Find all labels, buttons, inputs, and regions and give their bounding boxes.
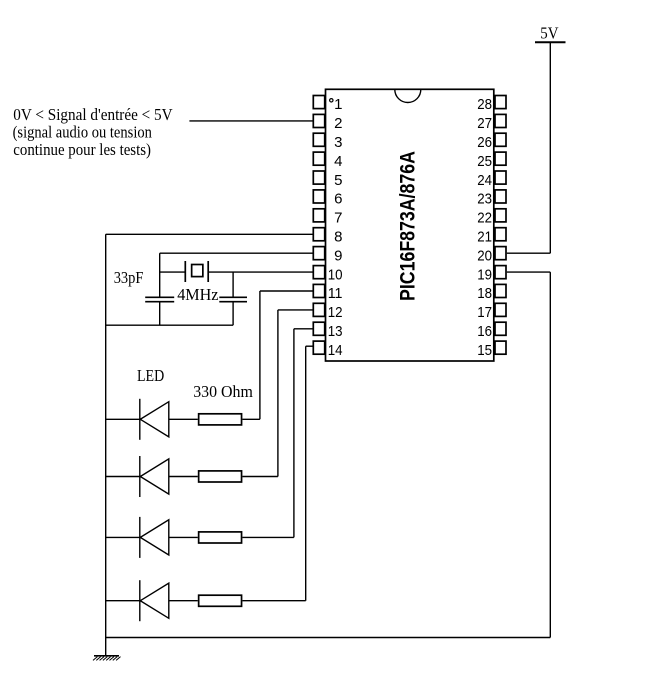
IC U1 pin 9 pad — [313, 247, 324, 260]
wire: OSC1 node to crystal left plate — [160, 271, 186, 273]
svg-text:20: 20 — [477, 247, 492, 264]
wire: bottom ground wire — [106, 637, 551, 639]
svg-text:27: 27 — [477, 115, 492, 132]
LED D4 triangle — [140, 583, 169, 618]
LED D2 triangle — [140, 459, 169, 494]
svg-text:3: 3 — [334, 134, 342, 151]
svg-text:28: 28 — [477, 96, 492, 113]
LED D4 cathode bar — [139, 580, 141, 621]
wire: pin 20 (Vdd) to 5V rail — [507, 252, 551, 254]
ground symbol hatching — [93, 657, 121, 661]
wire: riser up to pin 14 level — [305, 346, 307, 601]
svg-text:PIC16F873A/876A: PIC16F873A/876A — [397, 151, 420, 301]
IC U1 pin 11 pad — [313, 284, 324, 297]
crystal X1 left plate — [184, 261, 186, 282]
resistor R2 330 Ohm body — [199, 471, 242, 482]
IC U1 pin 22 pad — [495, 209, 506, 222]
IC U1 pin 20 pad — [495, 247, 506, 260]
IC U1 pin 13 pad — [313, 322, 324, 335]
LED D3 cathode bar — [139, 517, 141, 558]
svg-text:(signal audio ou tension: (signal audio ou tension — [13, 123, 152, 142]
svg-text:26: 26 — [477, 134, 492, 151]
IC U1 pin 2 pad — [313, 114, 324, 127]
LED D3 triangle — [140, 520, 169, 555]
wire: riser up to pin 13 level — [293, 329, 295, 538]
svg-text:continue pour les tests): continue pour les tests) — [13, 140, 151, 159]
IC U1 pin 14 pad — [313, 341, 324, 354]
wire: crystal caps ground return — [106, 324, 233, 326]
svg-text:9: 9 — [334, 247, 342, 264]
svg-text:14: 14 — [328, 342, 343, 359]
resistor R4 330 Ohm body — [199, 595, 242, 606]
wire: pin 19 (Vss) right — [507, 271, 551, 273]
svg-text:5: 5 — [334, 172, 342, 189]
LED D1 triangle — [140, 402, 169, 437]
IC U1 pin 12 pad — [313, 303, 324, 316]
IC U1 pin 25 pad — [495, 152, 506, 165]
IC U1 pin 24 pad — [495, 171, 506, 184]
crystal X1 body — [192, 265, 203, 277]
svg-text:8: 8 — [334, 229, 342, 246]
crystal X1 right plate — [207, 261, 209, 282]
svg-text:11: 11 — [328, 285, 343, 302]
IC U1 pin 8 pad — [313, 228, 324, 241]
IC U1 PIC16F873A/876A body — [326, 89, 494, 361]
wire: LED D2 anode to resistor R2 — [169, 476, 198, 478]
IC U1 pin 23 pad — [495, 190, 506, 203]
wire: riser to pin 11 — [260, 290, 313, 292]
5V supply rail bar — [535, 41, 566, 43]
resistor R3 330 Ohm body — [199, 532, 242, 543]
IC U1 pin-1 index dot — [330, 99, 333, 102]
wire: LED D1 anode to resistor R1 — [169, 418, 198, 420]
svg-text:13: 13 — [328, 323, 343, 340]
wire: signal input to pin 2 — [189, 120, 312, 122]
wire: ground bus to LED D4 cathode — [106, 600, 140, 602]
IC U1 pin 28 pad — [495, 96, 506, 109]
wire: resistor R1 to riser — [242, 418, 260, 420]
IC U1 pin 1 pad — [313, 96, 324, 109]
capacitor C2 33pF bottom plate — [219, 301, 247, 303]
svg-text:330 Ohm: 330 Ohm — [193, 382, 253, 401]
svg-text:2: 2 — [334, 115, 342, 132]
IC U1 pin 19 pad — [495, 266, 506, 279]
IC U1 pin 10 pad — [313, 266, 324, 279]
IC U1 pin 5 pad — [313, 171, 324, 184]
ground symbol bar — [94, 655, 119, 657]
wire: pin 9 OSC1 left — [160, 252, 313, 254]
IC U1 pin 16 pad — [495, 322, 506, 335]
wire: OSC1 node down to C1 — [159, 253, 161, 297]
wire: resistor R2 to riser — [242, 476, 278, 478]
wire: riser up to pin 11 level — [259, 291, 261, 419]
IC U1 pin 17 pad — [495, 303, 506, 316]
svg-text:0V < Signal d'entrée < 5V: 0V < Signal d'entrée < 5V — [13, 105, 172, 124]
svg-text:33pF: 33pF — [114, 268, 144, 287]
svg-text:1: 1 — [334, 96, 342, 113]
wire: ground bus to LED D2 cathode — [106, 476, 140, 478]
capacitor C1 33pF bottom plate — [145, 301, 174, 303]
IC U1 orientation notch — [395, 90, 421, 103]
wire: crystal right plate to pin 10 OSC2 — [208, 271, 312, 273]
wire: 5V rail down to pin 20 level — [549, 43, 551, 253]
wire: resistor R4 to riser — [242, 600, 305, 602]
IC U1 pin 27 pad — [495, 114, 506, 127]
svg-text:19: 19 — [477, 266, 492, 283]
svg-text:16: 16 — [477, 323, 492, 340]
wire: right vertical down to ground wire — [549, 272, 551, 637]
svg-text:7: 7 — [334, 210, 342, 227]
IC U1 pin 26 pad — [495, 133, 506, 146]
wire: resistor R3 to riser — [242, 536, 294, 538]
svg-text:17: 17 — [477, 304, 492, 321]
wire: pin 8 (Vss) to ground bus — [106, 233, 313, 235]
IC U1 pin 6 pad — [313, 190, 324, 203]
svg-text:18: 18 — [477, 285, 492, 302]
IC U1 pin 18 pad — [495, 284, 506, 297]
wire: C1 to crystal ground wire — [159, 302, 161, 326]
wire: riser to pin 13 — [294, 328, 313, 330]
wire: LED D4 anode to resistor R4 — [169, 600, 198, 602]
svg-text:5V: 5V — [540, 24, 558, 43]
svg-text:21: 21 — [477, 229, 492, 246]
LED D2 cathode bar — [139, 456, 141, 497]
svg-text:LED: LED — [137, 366, 164, 385]
wire: OSC2 node down to C2 — [232, 272, 234, 297]
IC U1 pin 15 pad — [495, 341, 506, 354]
wire: left ground bus vertical — [105, 234, 107, 656]
LED D1 cathode bar — [139, 399, 141, 440]
svg-text:6: 6 — [334, 191, 342, 208]
svg-text:23: 23 — [477, 191, 492, 208]
capacitor C2 33pF top plate — [219, 296, 247, 298]
IC U1 pin 21 pad — [495, 228, 506, 241]
wire: LED D3 anode to resistor R3 — [169, 536, 198, 538]
wire: ground bus to LED D1 cathode — [106, 418, 140, 420]
svg-text:25: 25 — [477, 153, 492, 170]
wire: riser to pin 12 — [278, 309, 313, 311]
wire: riser to pin 14 — [306, 345, 314, 347]
svg-text:12: 12 — [328, 304, 343, 321]
svg-text:24: 24 — [477, 172, 492, 189]
svg-text:22: 22 — [477, 210, 492, 227]
svg-text:4: 4 — [334, 153, 342, 170]
wire: C2 to crystal ground wire — [232, 302, 234, 326]
svg-text:15: 15 — [477, 342, 492, 359]
wire: ground bus to LED D3 cathode — [106, 536, 140, 538]
IC U1 pin 4 pad — [313, 152, 324, 165]
svg-text:4MHz: 4MHz — [177, 285, 218, 304]
resistor R1 330 Ohm body — [199, 414, 242, 425]
IC U1 pin 7 pad — [313, 209, 324, 222]
capacitor C1 33pF top plate — [145, 296, 174, 298]
svg-text:10: 10 — [328, 266, 343, 283]
IC U1 pin 3 pad — [313, 133, 324, 146]
wire: riser up to pin 12 level — [277, 310, 279, 477]
